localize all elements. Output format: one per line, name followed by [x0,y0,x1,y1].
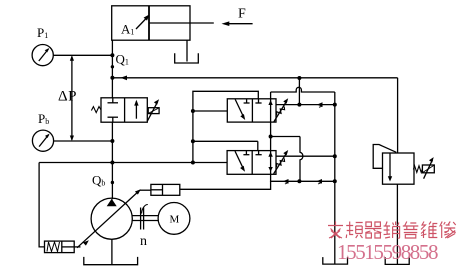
node above pump [111,181,114,184]
tank T2 [385,257,409,264]
shaft pump-motor [132,205,158,230]
drain wire V2 [271,174,335,181]
node Q1/vertical [297,76,301,80]
valve V2 flow arrowheads [268,152,272,172]
wire spring box to pump arrow [74,246,80,248]
node pilot V2 / right bus [333,154,337,158]
pilot solenoid of reducing valve [147,99,159,121]
node on main line at P1 tap [110,53,114,57]
variable displacement pump [91,198,132,239]
cylinder A1 [112,6,214,40]
char xiao [384,222,400,239]
pilot wire V1 with hop [271,87,335,92]
node drain/right bus [333,179,337,183]
spring cartridge box [45,241,75,253]
wire Q1 top line with arrow [112,76,397,81]
red vendor text line 2 (phone number) [337,240,437,265]
force arrow F [222,7,253,27]
node supply/valve2 top [191,139,195,143]
check arrow 2 on drain [316,179,322,184]
relief valve pilot box [422,165,434,173]
compensator spring V1 [276,107,284,116]
node on main line [111,65,114,68]
node Q1 [110,76,114,80]
relief valve main line from Q1 [397,78,399,153]
char xiu [440,222,456,239]
label A1 [121,14,150,36]
relief valve pilot loop [373,145,396,169]
char jiao [328,222,343,239]
check arrow on sense wire [317,102,323,107]
pressure gauge Pb [32,130,53,151]
tank T1 [323,257,348,264]
char wei [421,222,437,239]
relief valve spring [413,166,422,173]
char shou [403,222,419,239]
compensator spring V2 [276,158,284,167]
compensator arrow V2 [274,150,289,174]
node supply/valve1 left [191,109,195,113]
control wire to pump cylinder [180,181,271,189]
wire Pb to main line [54,140,113,142]
inter-valve tap wire with hop [271,137,303,182]
node drain/vertical [297,179,301,183]
main line below reducing valve [111,122,113,199]
node Pb tap [110,139,114,143]
pilot wire V2 [276,155,335,157]
tank T3 [84,257,138,265]
node supply tap [110,161,114,165]
relief valve drain [396,184,398,264]
pump suction line [111,239,113,264]
relief valve RV body [383,153,415,184]
check arrow 1 on drain [283,179,289,184]
node inter-valve tap [269,135,273,139]
vertical wire from Q1 line down [298,78,300,105]
pressure gauge P1 [32,45,53,66]
delta-P measure line [70,55,74,141]
valve V1 flow arrow line (through both valves) [268,92,272,174]
compensator arrow V1 [274,98,289,122]
char pin [346,222,363,239]
main supply line (vertical) [111,40,113,98]
relief valve adjust arrow [424,157,434,179]
electric motor M [158,203,190,235]
wire control cylinder to pump arrow [140,189,151,191]
node supply bottom [191,161,195,165]
sense wire V1 [276,104,335,106]
char qi [365,222,382,238]
wire P1 to main line [53,54,112,56]
tank under cylinder [175,40,199,63]
pump variable arrow [77,189,141,248]
solenoid valve V2 body [227,151,276,175]
spring of reducing valve [91,107,101,113]
node sense/vertical [297,103,301,107]
supply branch net [39,91,258,162]
solenoid valve V1 body [227,99,276,122]
left feedback frame wire [39,163,44,247]
right bus wire [334,92,336,264]
pump control cylinder [151,184,180,195]
node sense/right bus [333,103,337,107]
proportional pressure reducing valve [101,98,147,122]
